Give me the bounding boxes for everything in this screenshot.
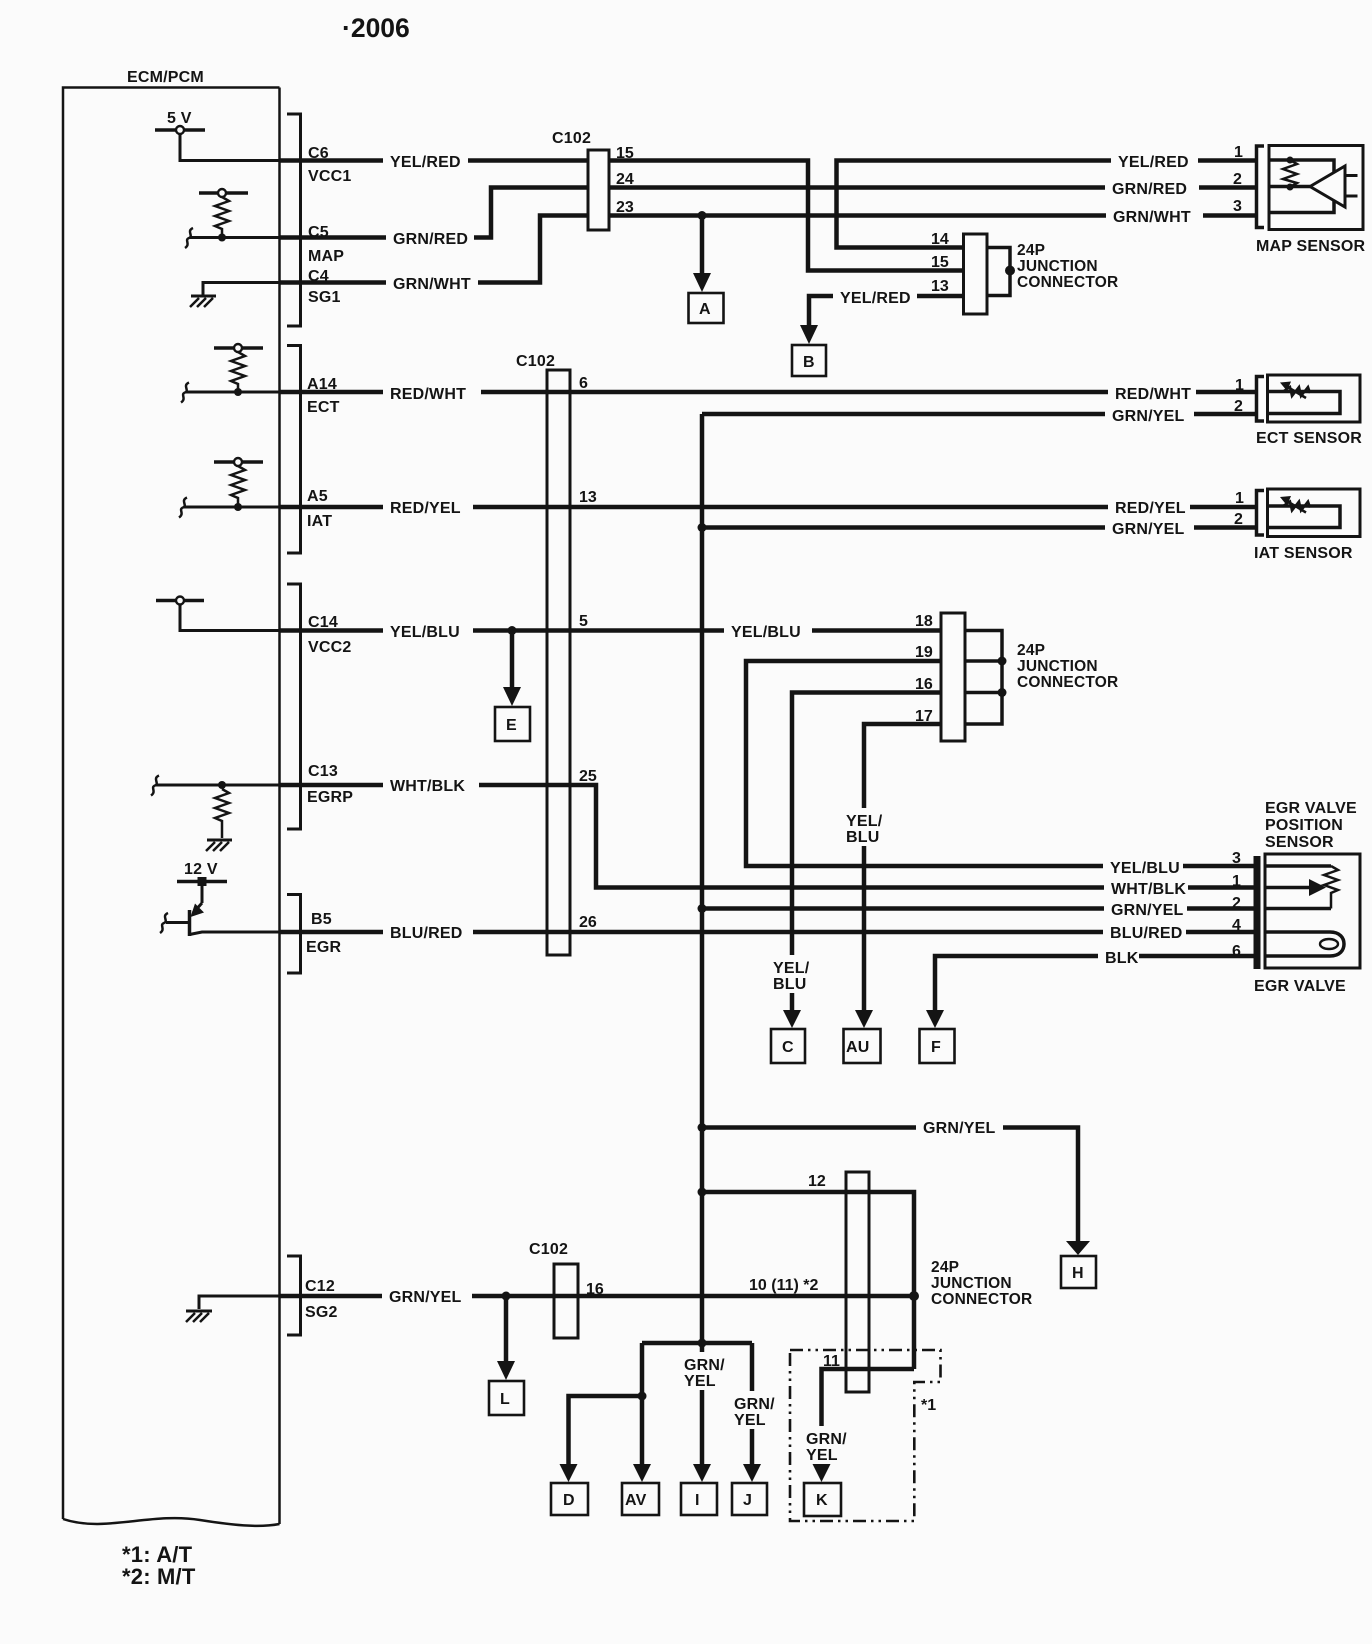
wire arrow down to connector A — [700, 216, 705, 275]
svg-text:YEL: YEL — [806, 1447, 838, 1464]
svg-text:24P: 24P — [1017, 642, 1045, 659]
svg-text:GRN/: GRN/ — [734, 1396, 775, 1413]
wire row A14 RED/WHT to ECT sensor — [186, 391, 280, 394]
svg-text:12 V: 12 V — [184, 861, 218, 878]
connector ref H box — [1061, 1256, 1096, 1288]
wire break squiggle Q1 base — [160, 913, 168, 933]
junction (top) bus node — [1005, 266, 1015, 276]
24P junction connector (middle) body — [941, 613, 965, 741]
MAP sensor — [1257, 146, 1364, 230]
wire branch to J — [750, 1343, 755, 1472]
wire MAP sensor YEL/RED to junction pin 14 — [837, 161, 1257, 248]
svg-text:WHT/BLK: WHT/BLK — [1111, 881, 1186, 898]
pull-up resistor network (ECT input A14) — [214, 344, 263, 392]
svg-text:19: 19 — [915, 644, 933, 661]
svg-text:6: 6 — [1232, 943, 1241, 960]
node GRN/YEL bus distribution — [698, 1339, 707, 1348]
svg-text:B5: B5 — [311, 911, 332, 928]
connector ref AU box — [844, 1029, 881, 1063]
svg-text:2: 2 — [1233, 171, 1242, 188]
svg-text:IAT: IAT — [307, 513, 332, 530]
svg-text:2: 2 — [1234, 398, 1243, 415]
svg-text:A: A — [699, 301, 711, 318]
svg-text:IAT SENSOR: IAT SENSOR — [1254, 545, 1353, 562]
svg-text:SG2: SG2 — [305, 1304, 338, 1321]
connector ref B box — [792, 345, 826, 376]
wire row C5 internal — [190, 236, 280, 239]
svg-text:C6: C6 — [308, 145, 329, 162]
node junction bus pin 10 — [909, 1291, 919, 1301]
svg-text:SENSOR: SENSOR — [1265, 834, 1334, 851]
svg-text:GRN/YEL: GRN/YEL — [1112, 521, 1185, 538]
svg-text:*1: *1 — [921, 1397, 936, 1414]
wire junction pin 16 down to connector C — [792, 693, 941, 1019]
wire C102 pin15 to junction pin 15 — [609, 161, 964, 271]
svg-text:16: 16 — [586, 1281, 604, 1298]
24P junction connector (bottom) body — [846, 1172, 869, 1392]
wire branch to I — [700, 1343, 705, 1472]
svg-text:GRN/WHT: GRN/WHT — [393, 276, 471, 293]
svg-text:GRN/YEL: GRN/YEL — [923, 1120, 996, 1137]
svg-text:2: 2 — [1232, 895, 1241, 912]
svg-text:24P: 24P — [931, 1259, 959, 1276]
wire C102 pin23 to MAP sensor GRN/WHT — [609, 213, 1257, 218]
svg-text:SG1: SG1 — [308, 289, 341, 306]
svg-text:BLU/RED: BLU/RED — [1110, 925, 1183, 942]
svg-text:GRN/: GRN/ — [684, 1357, 725, 1374]
wire GRN/YEL to connector H — [702, 1128, 1078, 1243]
pull-up resistor network (IAT input A5) — [214, 458, 263, 507]
svg-text:1: 1 — [1235, 490, 1244, 507]
24P junction connector (top) body — [964, 234, 988, 314]
svg-text:AU: AU — [846, 1039, 870, 1056]
connector C102 (top) body — [588, 150, 609, 230]
5V supply symbol (VCC1) — [155, 126, 205, 134]
svg-text:H: H — [1072, 1265, 1084, 1282]
svg-text:YEL/: YEL/ — [773, 960, 810, 977]
svg-text:I: I — [695, 1492, 700, 1509]
wire junction pin 17 down to connector AU — [864, 724, 941, 1018]
svg-text:17: 17 — [915, 708, 933, 725]
wire GRN/YEL to IAT sensor pin 2 — [702, 525, 1257, 530]
svg-text:15: 15 — [931, 254, 949, 271]
connector bracket B5 — [287, 895, 301, 974]
wire junction pin 19 to EGR position sensor YEL/BLU — [746, 661, 1257, 866]
svg-text:YEL: YEL — [734, 1412, 766, 1429]
connector ref L box — [489, 1381, 524, 1415]
connector C102 (middle, long) body — [547, 370, 570, 955]
svg-text:13: 13 — [931, 278, 949, 295]
svg-text:13: 13 — [579, 489, 597, 506]
connector bracket A14/A5 — [287, 346, 301, 554]
wire row C13 WHT/BLK to EGR position sensor — [280, 785, 1257, 888]
svg-text:J: J — [743, 1492, 752, 1509]
svg-text:12: 12 — [808, 1173, 826, 1190]
wire junction pin 12 row and right bus — [702, 1192, 914, 1369]
svg-text:ECT: ECT — [307, 399, 340, 416]
svg-text:11: 11 — [823, 1353, 840, 1370]
wire break squiggle C13 — [151, 776, 159, 796]
svg-text:GRN/YEL: GRN/YEL — [1111, 902, 1184, 919]
connector bracket C6/C5/C4 — [287, 114, 301, 326]
wire row A5 RED/YEL to IAT sensor — [184, 506, 280, 509]
svg-text:POSITION: POSITION — [1265, 817, 1343, 834]
wire BLK from EGR valve pin 6 to connector F — [935, 956, 1257, 1018]
svg-text:BLK: BLK — [1105, 950, 1139, 967]
connector ref E box — [495, 707, 530, 741]
svg-text:C4: C4 — [308, 268, 329, 285]
svg-text:BLU: BLU — [846, 829, 879, 846]
wire row B5 BLU/RED to EGR valve — [280, 930, 1257, 935]
node GRN/YEL bus to junction pin 12 — [698, 1188, 707, 1197]
svg-text:C: C — [782, 1039, 794, 1056]
wire break squiggle A5 — [179, 498, 187, 518]
GRN/YEL bus vertical — [700, 414, 705, 1343]
node GRN/YEL bus branch to H — [698, 1123, 707, 1132]
svg-text:EGR VALVE: EGR VALVE — [1254, 978, 1346, 995]
svg-text:GRN/RED: GRN/RED — [393, 231, 468, 248]
wire break squiggle A14 — [181, 383, 189, 403]
svg-text:JUNCTION: JUNCTION — [1017, 658, 1098, 675]
svg-text:CONNECTOR: CONNECTOR — [931, 1291, 1032, 1308]
svg-text:2: 2 — [1234, 511, 1243, 528]
svg-text:C13: C13 — [308, 763, 338, 780]
connector ref D box — [551, 1483, 588, 1515]
wire branch to D and AV — [640, 1343, 645, 1472]
12V supply symbol — [177, 877, 227, 886]
svg-text:24: 24 — [616, 171, 634, 188]
wire break squiggle C5 — [185, 228, 193, 248]
svg-text:C102: C102 — [552, 130, 591, 147]
connector ref I box — [681, 1483, 717, 1515]
svg-text:BLU: BLU — [773, 976, 806, 993]
svg-text:4: 4 — [1232, 917, 1241, 934]
svg-text:MAP: MAP — [308, 248, 344, 265]
svg-text:GRN/WHT: GRN/WHT — [1113, 209, 1191, 226]
svg-text:16: 16 — [915, 676, 933, 693]
wire junction pin 11 to connector K — [822, 1369, 915, 1472]
wire row C13 internal — [156, 784, 280, 787]
svg-text:YEL/BLU: YEL/BLU — [1110, 860, 1180, 877]
connector ref J box — [732, 1483, 767, 1515]
svg-text:RED/YEL: RED/YEL — [390, 500, 461, 517]
svg-text:5: 5 — [579, 613, 588, 630]
wire C102 pin24 to MAP sensor GRN/RED — [609, 185, 1257, 190]
EGR valve position sensor / EGR valve — [1257, 854, 1360, 969]
svg-text:JUNCTION: JUNCTION — [931, 1275, 1012, 1292]
svg-text:CONNECTOR: CONNECTOR — [1017, 274, 1118, 291]
svg-text:L: L — [500, 1391, 510, 1408]
node C5 junction dot — [218, 234, 226, 242]
svg-text:26: 26 — [579, 914, 597, 931]
svg-text:YEL/: YEL/ — [846, 813, 883, 830]
svg-text:YEL/RED: YEL/RED — [390, 154, 461, 171]
node on GRN/WHT branch to A — [698, 211, 707, 220]
svg-text:GRN/RED: GRN/RED — [1112, 181, 1187, 198]
5V supply symbol (VCC2) — [156, 597, 204, 605]
svg-text:RED/YEL: RED/YEL — [1115, 500, 1186, 517]
svg-text:F: F — [931, 1039, 941, 1056]
wire row C6 YEL/RED to C102 pin 15 — [280, 158, 588, 163]
junction (middle) bus — [965, 631, 1002, 725]
connector ref F box — [920, 1029, 955, 1063]
svg-text:1: 1 — [1234, 144, 1243, 161]
IAT sensor — [1257, 489, 1361, 537]
svg-text:ECM/PCM: ECM/PCM — [127, 69, 204, 86]
svg-text:C12: C12 — [305, 1278, 335, 1295]
svg-text:YEL: YEL — [684, 1373, 716, 1390]
wire 5V to C6 pin — [180, 134, 280, 161]
transistor Q1 (EGR driver) — [166, 886, 280, 936]
svg-text:E: E — [506, 717, 517, 734]
svg-text:EGRP: EGRP — [307, 789, 353, 806]
svg-text:10 (11) *2: 10 (11) *2 — [749, 1277, 818, 1294]
svg-text:*2: M/T: *2: M/T — [122, 1564, 196, 1589]
wire GRN/YEL to ECT sensor pin 2 — [702, 412, 1257, 417]
svg-text:BLU/RED: BLU/RED — [390, 925, 463, 942]
svg-text:A14: A14 — [307, 376, 337, 393]
svg-text:ECT SENSOR: ECT SENSOR — [1256, 430, 1362, 447]
svg-text:GRN/YEL: GRN/YEL — [1112, 408, 1185, 425]
wire row C4 GRN/WHT jog up to C102 pin 23 — [280, 216, 588, 283]
svg-text:1: 1 — [1235, 377, 1244, 394]
connector C102 (bottom) body — [554, 1264, 578, 1338]
svg-text:5 V: 5 V — [167, 110, 192, 127]
node GRN/YEL bus to IAT pin 2 — [698, 523, 707, 532]
svg-text:·2006: ·2006 — [342, 13, 410, 43]
svg-text:C14: C14 — [308, 614, 338, 631]
svg-text:23: 23 — [616, 199, 634, 216]
wire arrow down to connector L — [504, 1296, 509, 1362]
svg-text:14: 14 — [931, 231, 949, 248]
svg-text:1: 1 — [1232, 873, 1241, 890]
svg-text:EGR VALVE: EGR VALVE — [1265, 800, 1357, 817]
connector ref AV box — [622, 1483, 659, 1515]
svg-text:GRN/: GRN/ — [806, 1431, 847, 1448]
connector bracket C12 — [287, 1256, 301, 1335]
wire YEL/RED junction pin 13 to connector B — [809, 296, 964, 326]
pull-up resistor network (MAP input C5) — [199, 189, 248, 238]
connector bracket C14/C13 — [287, 584, 301, 829]
wire 5V to C14 pin — [180, 605, 280, 631]
svg-text:C102: C102 — [529, 1241, 568, 1258]
node SG2 branch to L — [502, 1292, 511, 1301]
svg-text:B: B — [803, 354, 815, 371]
svg-text:YEL/RED: YEL/RED — [1118, 154, 1189, 171]
svg-text:EGR: EGR — [306, 939, 342, 956]
svg-text:YEL/RED: YEL/RED — [840, 290, 911, 307]
wire row C12 GRN/YEL SG2 to junction pin 10 — [280, 1294, 914, 1299]
wire row C5 GRN/RED jog up to C102 pin 24 — [280, 188, 588, 238]
svg-text:JUNCTION: JUNCTION — [1017, 258, 1098, 275]
svg-text:CONNECTOR: CONNECTOR — [1017, 674, 1118, 691]
svg-text:3: 3 — [1233, 198, 1242, 215]
A/T dash-dot outline box — [790, 1350, 941, 1521]
wire arrow down to connector E — [510, 631, 515, 689]
svg-text:15: 15 — [616, 145, 634, 162]
svg-text:25: 25 — [579, 768, 597, 785]
connector ref C box — [771, 1029, 805, 1063]
svg-text:24P: 24P — [1017, 242, 1045, 259]
svg-text:C5: C5 — [308, 224, 329, 241]
ECT sensor — [1257, 375, 1361, 422]
wire distribution header — [642, 1341, 752, 1346]
ECM/PCM box torn bottom edge — [63, 1518, 280, 1526]
svg-text:AV: AV — [625, 1492, 647, 1509]
svg-text:RED/WHT: RED/WHT — [1115, 386, 1191, 403]
node YEL/BLU branch to E — [508, 626, 517, 635]
svg-text:GRN/YEL: GRN/YEL — [389, 1289, 462, 1306]
svg-text:A5: A5 — [307, 488, 328, 505]
svg-text:WHT/BLK: WHT/BLK — [390, 778, 465, 795]
svg-text:6: 6 — [579, 375, 588, 392]
white gaps for inline wire labels — [382, 149, 1203, 1464]
node A14 junction dot — [234, 388, 242, 396]
ground SG1 — [190, 283, 280, 308]
ECM/PCM box — [63, 88, 280, 1525]
junction (top) bus — [987, 248, 1010, 296]
svg-text:18: 18 — [915, 613, 933, 630]
junction (middle) bus node 16 — [998, 688, 1007, 697]
svg-text:K: K — [816, 1492, 828, 1509]
svg-text:YEL/BLU: YEL/BLU — [731, 624, 801, 641]
svg-text:MAP SENSOR: MAP SENSOR — [1256, 238, 1366, 255]
svg-text:C102: C102 — [516, 353, 555, 370]
svg-text:RED/WHT: RED/WHT — [390, 386, 466, 403]
ground SG2 — [186, 1296, 280, 1322]
connector ref K box — [804, 1483, 841, 1516]
node A5 junction dot — [234, 503, 242, 511]
svg-text:VCC2: VCC2 — [308, 639, 351, 656]
connector ref A box — [689, 293, 724, 323]
wire row C14 YEL/BLU to junction pin 18 — [280, 628, 941, 633]
wire GRN/YEL bus to EGR position sensor pin 2 — [698, 904, 707, 913]
svg-text:D: D — [563, 1492, 575, 1509]
svg-text:3: 3 — [1232, 850, 1241, 867]
svg-text:YEL/BLU: YEL/BLU — [390, 624, 460, 641]
resistor to ground (EGRP C13) — [206, 781, 232, 851]
svg-text:VCC1: VCC1 — [308, 168, 351, 185]
junction (middle) bus node 19 — [998, 657, 1007, 666]
